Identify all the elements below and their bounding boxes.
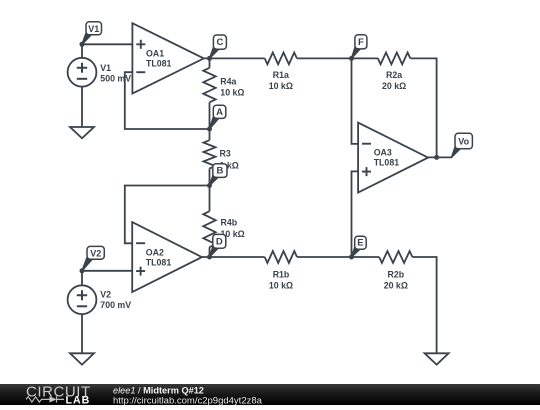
svg-text:V2: V2 (90, 248, 101, 258)
svg-text:V1: V1 (88, 24, 99, 34)
footer bar (0, 384, 540, 405)
svg-text:TL081: TL081 (146, 257, 172, 267)
svg-text:700 mV: 700 mV (100, 300, 131, 310)
svg-text:OA2: OA2 (146, 247, 164, 257)
wire V2 node to OA2 + input (82, 270, 132, 272)
svg-text:20 kΩ: 20 kΩ (384, 281, 408, 291)
wire node F down to OA3 - input (352, 58, 359, 143)
wire V1 source to ground (81, 87, 83, 127)
junction node B (207, 183, 212, 188)
wire OA1 - input feedback to node A (125, 72, 210, 129)
wire node B to R4b (209, 186, 211, 212)
svg-text:A: A (216, 107, 223, 118)
node B (210, 164, 228, 186)
resistor R1a zigzag (265, 53, 297, 65)
R3 value label (220, 149, 239, 171)
node V1 (82, 22, 102, 45)
wire node B feedback to OA2 - input (125, 186, 210, 244)
wire R1a to node F (297, 57, 378, 59)
R4a value label (220, 77, 244, 98)
svg-text:V2: V2 (100, 290, 111, 300)
resistor R3 zigzag (204, 140, 216, 168)
wire OA3 output to Vo (428, 156, 451, 158)
wire node C column down to R4a (209, 58, 211, 67)
wire V2 source to ground (81, 314, 83, 354)
wire R1b to node E (297, 256, 379, 258)
R4b value label (221, 218, 245, 239)
node V2 (82, 246, 104, 270)
node Vo (452, 133, 473, 157)
V2 value label (100, 290, 131, 310)
voltage source V1 (68, 58, 97, 87)
ground below R2b (425, 353, 449, 364)
op-amp OA3 (358, 123, 428, 193)
V1 value label (100, 63, 131, 83)
svg-text:LAB: LAB (66, 395, 91, 405)
resistor R4a zigzag (203, 68, 215, 103)
svg-text:B: B (216, 166, 223, 177)
node C (210, 35, 227, 58)
OA2 label (146, 247, 172, 267)
svg-text:http://circuitlab.com/c2p9gd4y: http://circuitlab.com/c2p9gd4yt2z8a (113, 395, 263, 405)
resistor R4b zigzag (203, 211, 215, 247)
R2b value label (384, 269, 408, 290)
resistor R2a zigzag (378, 53, 410, 65)
wire OA1 output to node C (204, 57, 265, 59)
svg-text:R2a: R2a (386, 70, 402, 80)
svg-text:500 mV: 500 mV (100, 74, 131, 84)
node E (352, 236, 367, 257)
voltage source V2 (68, 285, 97, 314)
svg-text:D: D (216, 236, 223, 247)
wire R2b to ground (412, 257, 436, 354)
svg-text:R1a: R1a (273, 70, 289, 80)
svg-text:R1b: R1b (273, 269, 290, 279)
svg-text:10 kΩ: 10 kΩ (269, 281, 293, 291)
wire V2 node down to V2 source (81, 271, 83, 286)
resistor R1b zigzag (265, 251, 297, 263)
wire R3 to node B (209, 169, 211, 186)
wire R2a to OA3 output junction (410, 58, 436, 157)
R1a value label (269, 70, 293, 91)
node F (352, 35, 367, 59)
wire V1 node to OA1 + input (82, 43, 132, 45)
CircuitLab logo resistor-diode icon (26, 396, 64, 402)
op-amp OA2 (132, 222, 202, 292)
svg-text:R3: R3 (220, 149, 231, 159)
svg-text:C: C (216, 37, 223, 48)
svg-text:R2b: R2b (387, 269, 404, 279)
ground below V2 (70, 353, 94, 364)
footer title text (113, 385, 263, 406)
svg-text:elee1 / Midterm Q#12: elee1 / Midterm Q#12 (113, 385, 204, 395)
svg-text:TL081: TL081 (146, 59, 172, 69)
junction node C (207, 56, 212, 61)
svg-text:E: E (357, 238, 363, 249)
wire OA2 output to node D and R1b (202, 256, 265, 258)
wire R4b to node D (209, 247, 211, 257)
svg-text:F: F (358, 37, 364, 48)
junction node D (207, 255, 212, 260)
OA1 label (146, 49, 172, 69)
wire V1 node down to V1 source (81, 44, 83, 58)
resistor R2b zigzag (379, 251, 412, 263)
R2a value label (382, 70, 406, 91)
R1b value label (269, 269, 293, 290)
svg-text:OA1: OA1 (146, 49, 164, 59)
svg-text:10 kΩ: 10 kΩ (269, 81, 293, 91)
junction node A (207, 127, 212, 132)
svg-text:R4b: R4b (221, 218, 238, 228)
node A (210, 105, 226, 129)
junction node E (349, 255, 354, 260)
CircuitLab logo text (26, 383, 91, 406)
wire node A to R3 (209, 129, 211, 140)
svg-text:OA3: OA3 (374, 148, 392, 158)
svg-text:TL081: TL081 (374, 158, 400, 168)
svg-text:R4a: R4a (220, 77, 236, 87)
wire R4a to node A (209, 102, 211, 129)
junction OA3 output (434, 155, 439, 160)
junction V2 node (80, 268, 85, 273)
wire OA3 + input down to node E (352, 171, 359, 257)
svg-text:Vo: Vo (458, 137, 469, 147)
svg-text:10 kΩ: 10 kΩ (220, 87, 244, 97)
OA3 label (374, 148, 400, 168)
op-amp OA1 (132, 23, 203, 93)
junction V1 node (80, 42, 85, 47)
svg-text:20 kΩ: 20 kΩ (382, 81, 406, 91)
svg-text:V1: V1 (100, 63, 111, 73)
node D (210, 234, 226, 257)
ground below V1 (70, 127, 94, 138)
junction node F (349, 56, 354, 61)
